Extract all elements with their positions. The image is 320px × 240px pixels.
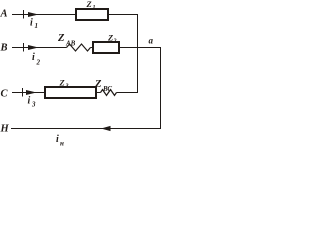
resistor Z1 box — [76, 9, 108, 20]
svg-text:3: 3 — [65, 84, 69, 90]
wire phase A horizontal — [12, 14, 138, 16]
svg-text:i: i — [28, 96, 31, 107]
svg-text:2: 2 — [113, 39, 117, 45]
svg-text:i: i — [30, 18, 33, 29]
wire phase C to bus — [117, 92, 139, 94]
resistor Z2 box — [93, 42, 119, 53]
resistor Z3 box — [45, 87, 96, 98]
svg-text:Z: Z — [107, 33, 113, 43]
svg-text:Z: Z — [86, 0, 92, 9]
svg-text:Н: Н — [0, 124, 10, 135]
svg-text:АВ: АВ — [65, 40, 76, 48]
inductor Z_AB zigzag — [67, 44, 91, 51]
arrow current iH points left — [101, 126, 111, 131]
wire bus vertical right — [137, 15, 139, 94]
svg-text:ВС: ВС — [102, 85, 112, 93]
svg-text:А: А — [0, 9, 8, 20]
tick phase A — [23, 10, 25, 19]
svg-text:2: 2 — [36, 59, 41, 67]
svg-text:i: i — [32, 52, 35, 63]
svg-text:Z: Z — [59, 78, 65, 88]
arrow current i1 — [28, 12, 39, 17]
svg-text:н: н — [60, 140, 64, 148]
wire phase B horizontal left — [12, 47, 67, 49]
svg-text:3: 3 — [31, 101, 36, 109]
svg-text:а: а — [149, 36, 154, 46]
svg-text:1: 1 — [93, 5, 96, 11]
wire phase C horizontal left — [12, 92, 101, 94]
tick phase B — [23, 43, 25, 52]
svg-text:1: 1 — [35, 22, 39, 30]
svg-text:i: i — [56, 134, 59, 145]
wire phase B horizontal right — [91, 47, 162, 49]
svg-text:С: С — [1, 89, 9, 100]
arrow current i2 — [28, 45, 39, 50]
wire right vertical to neutral — [160, 48, 162, 130]
tick phase C — [22, 88, 24, 97]
wire neutral H horizontal — [11, 128, 161, 130]
svg-text:Z: Z — [57, 33, 65, 44]
svg-text:В: В — [0, 43, 8, 54]
svg-text:Z: Z — [94, 79, 102, 90]
arrow current i3 — [26, 90, 37, 95]
inductor Z_BC zigzag — [101, 90, 117, 96]
